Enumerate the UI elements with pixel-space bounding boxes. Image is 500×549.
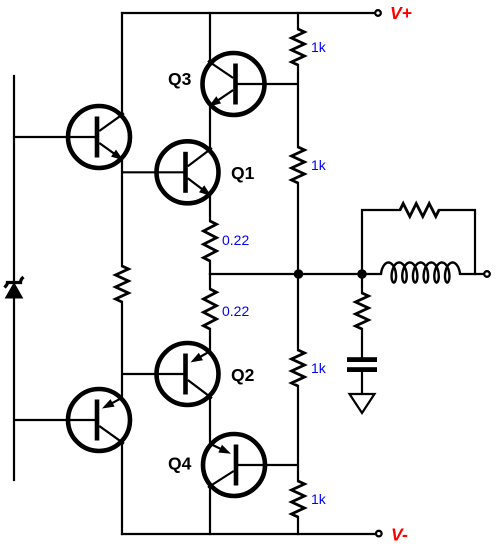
wire damping resistor to right corner down to output line (439, 210, 475, 274)
svg-text:V+: V+ (390, 3, 412, 23)
resistor 0.22 (lower emitter) (204, 289, 217, 329)
resistor (bias, left rail) (116, 266, 129, 302)
wire Q4 collector to bottom rail (209, 488, 211, 534)
svg-text:1k: 1k (311, 360, 327, 376)
wire left rail from bias resistor to lower PNP emitter (121, 302, 123, 396)
transistor (upper left, NPN) (14, 106, 130, 168)
svg-text:Q1: Q1 (231, 163, 255, 183)
transistor Q4 (168, 434, 298, 496)
wire Q3 emitter to Q1 collector (209, 108, 211, 148)
resistor (parallel damping across inductor) (400, 204, 439, 217)
svg-text:V-: V- (391, 525, 408, 545)
ground (350, 394, 375, 413)
terminal V- (376, 531, 382, 537)
wire right rail: third 1k to bottom 1k (Q4 base tap) (297, 386, 299, 481)
wire upper 0.22 resistor to output node (209, 261, 211, 274)
wire right rail top (297, 13, 299, 29)
transistor Q1 (122, 141, 255, 203)
wire left reference line lower (13, 297, 15, 480)
resistor 1k (bottom, base feed of Q4) (292, 481, 305, 517)
transistor Q3 (168, 53, 298, 115)
transistor Q2 (122, 343, 255, 405)
wire right rail: output node to third 1k (297, 274, 299, 350)
wire capacitor to ground (361, 372, 363, 393)
resistor 1k (third) (292, 350, 305, 386)
wire right rail: second 1k to output node (297, 183, 299, 274)
svg-text:0.22: 0.22 (222, 232, 249, 248)
zener diode (5, 277, 24, 298)
wire inductor to output terminal (460, 273, 484, 275)
node (Zobel / inductor junction) (357, 269, 367, 279)
wire middle rail top (V+ to Q3 collector) (209, 13, 211, 61)
wire right rail: top 1k to second 1k (Q3 base tap) (297, 65, 299, 147)
resistor 0.22 (upper emitter) (204, 221, 217, 261)
svg-text:0.22: 0.22 (222, 303, 249, 319)
transistor (lower left, PNP) (14, 389, 130, 451)
resistor (Zobel network) (356, 293, 369, 329)
wire Zobel resistor to capacitor (361, 329, 363, 357)
inductor (output) (381, 263, 460, 283)
wire output node to lower 0.22 resistor (209, 274, 211, 289)
capacitor (Zobel network) (347, 357, 377, 372)
wire lower 0.22 resistor to Q2 emitter (209, 329, 211, 350)
wire right rail bottom (297, 517, 299, 534)
wire node up and over to damping resistor (362, 210, 400, 274)
svg-text:1k: 1k (311, 157, 327, 173)
svg-text:Q4: Q4 (168, 454, 192, 474)
wire left rail lower segment (121, 444, 123, 534)
node (right rail / output junction) (294, 269, 304, 279)
wire left reference line upper (13, 76, 15, 281)
wire left rail upper segment (121, 13, 123, 113)
wire Q2 collector to Q4 emitter (209, 398, 211, 442)
terminal V+ (375, 10, 381, 16)
svg-text:1k: 1k (311, 491, 327, 507)
wire output node horizontal (210, 273, 381, 275)
terminal (output) (484, 271, 490, 277)
wire left rail from upper emitter to bias resistor (121, 161, 123, 266)
svg-text:Q2: Q2 (231, 365, 255, 385)
wire Q1 emitter to upper 0.22 resistor (209, 197, 211, 222)
resistor 1k (top, base feed of Q3) (292, 29, 305, 65)
svg-text:Q3: Q3 (168, 69, 192, 89)
wire Zobel branch down from node (361, 274, 363, 293)
wire top rail to V+ (122, 12, 374, 14)
wire bottom rail to V- (122, 533, 375, 535)
resistor 1k (second) (292, 147, 305, 183)
svg-text:1k: 1k (311, 39, 327, 55)
